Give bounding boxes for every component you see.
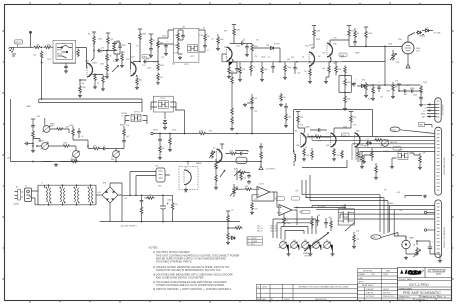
svg-text:5) CIRCUIT GROUND ⏚ DIRTY G: 5) CIRCUIT GROUND ⏚ DIRTY GROUND ⏚ CHASS…: [153, 287, 232, 291]
wire V1 plate up: [91, 44, 94, 61]
plate resistor R19: [233, 28, 236, 37]
wire r8c: [121, 51, 123, 64]
harness wires upper: [302, 175, 388, 234]
B+ terminal 2b: [106, 33, 110, 36]
title block company address text: [428, 269, 447, 276]
wire V1B grid from C2: [112, 44, 131, 70]
resistor R63: [238, 171, 247, 174]
resistor R34: [56, 128, 65, 131]
resistor R46: [280, 93, 283, 102]
B+ rail wire: [294, 110, 373, 153]
wire tp1: [427, 212, 435, 214]
svg-text:APP'D: APP'D: [359, 281, 365, 284]
wire r81: [326, 62, 329, 80]
wire plate: [133, 41, 140, 62]
svg-text:TO 26B: TO 26B: [434, 33, 442, 35]
resistor R20: [251, 44, 254, 53]
svg-text:1N4448: 1N4448: [419, 36, 425, 38]
footswitch lever: [305, 233, 329, 251]
cathode resistor R53: [341, 150, 344, 159]
wire CN2 drops: [130, 172, 170, 196]
labels panel: [38, 112, 128, 161]
trimmer arrow input: [112, 66, 119, 73]
junction dot r88: [365, 46, 367, 48]
wire diodes: [422, 31, 433, 35]
resistor R36: [92, 147, 101, 150]
svg-text:TOUCHING INTERNAL PARTS.: TOUCHING INTERNAL PARTS.: [156, 259, 193, 263]
labels fx: [368, 86, 408, 97]
mid box label: [339, 53, 347, 57]
diode D3: [424, 29, 430, 32]
svg-text:47K .05: 47K .05: [257, 228, 263, 230]
slider grounds: [287, 253, 291, 256]
resistor R72 input: [244, 188, 253, 191]
svg-text:RET: RET: [406, 85, 409, 87]
wire opto nets: [125, 102, 176, 124]
divider resistor R45: [285, 113, 288, 122]
plate resistor R27: [348, 29, 351, 38]
wire signal bus: [222, 61, 342, 63]
ground G16: [364, 94, 368, 97]
winding W4: [88, 187, 94, 204]
fsw components resistor R75: [311, 218, 314, 227]
shield loop: [236, 157, 247, 163]
svg-text:SEE PAGE 2 FOR OUTPUT SCHEMATI: SEE PAGE 2 FOR OUTPUT SCHEMATIC AND THE …: [299, 285, 350, 288]
svg-text:.047: .047: [328, 217, 331, 219]
resistor R68: [234, 227, 243, 230]
wire R42 to V6 region: [207, 133, 294, 135]
capacitor C27: [317, 128, 321, 132]
triode V2A: [227, 47, 233, 61]
plate resistor R10: [139, 32, 142, 41]
capacitor C1: [64, 65, 68, 69]
svg-text:T1: T1: [41, 183, 43, 185]
ground G17: [391, 95, 395, 98]
title block row lines: [398, 268, 452, 302]
ground G4: [115, 58, 119, 61]
ground G10: [245, 53, 249, 56]
ground G9: [216, 47, 220, 50]
op-amp U2: [277, 205, 294, 216]
ground G14: [283, 76, 287, 79]
labels V4: [305, 31, 355, 48]
wire right cluster: [399, 87, 421, 103]
capacitor C25: [239, 152, 243, 156]
capacitor C13: [293, 66, 297, 70]
wire r76b: [361, 152, 363, 166]
resistor R38: [231, 107, 234, 116]
U2 out harness wires: [312, 206, 435, 220]
svg-text:LEVEL: LEVEL: [384, 151, 389, 153]
grid components R43: [211, 150, 214, 159]
winding junction dots bottom: [48, 204, 50, 206]
J3 harness pin dots: [416, 240, 418, 242]
wire R12 net: [158, 38, 166, 62]
ground G32: [184, 188, 188, 191]
ground G2: [78, 94, 82, 97]
svg-text:R16: R16: [172, 64, 175, 66]
wire V5 cathode down: [407, 54, 409, 65]
test point circle TP1: [424, 211, 426, 213]
resistor R65: [146, 197, 155, 200]
svg-text:R30: R30: [362, 80, 365, 82]
wire r87: [353, 232, 355, 245]
wire box to V2 top: [158, 30, 174, 44]
B+ terminal 7: [31, 119, 35, 122]
opto sub-box: [174, 28, 199, 62]
resistor R70: [260, 151, 263, 160]
triode V2B: [309, 52, 315, 66]
svg-text:DRAWING NAME: DRAWING NAME: [399, 287, 413, 290]
wire R78 chain: [247, 94, 252, 134]
svg-text:SEND: SEND: [410, 88, 415, 90]
svg-text:MOCKUP: MOCKUP: [383, 293, 391, 295]
resistor R23: [250, 64, 253, 73]
boxed voltage label: [342, 133, 350, 137]
bias cluster resistor R60: [215, 161, 218, 170]
cathode resistor R21: [228, 66, 231, 75]
wire diode net: [252, 48, 280, 62]
wire C10: [246, 44, 248, 54]
B+ terminal 3: [232, 25, 236, 28]
svg-text:DESCRIPTION: DESCRIPTION: [315, 299, 327, 301]
svg-text:ON/OFF: ON/OFF: [304, 255, 310, 257]
wire r10b: [107, 45, 109, 51]
svg-text:820: 820: [341, 57, 344, 59]
svg-text:+26: +26: [124, 198, 127, 200]
wire P3: [71, 146, 76, 162]
node A: [41, 46, 43, 48]
resistor R7 cathode: [94, 73, 97, 82]
ground G19: [31, 149, 35, 152]
diode D6: [360, 84, 366, 87]
resistor R3b: [77, 49, 80, 58]
svg-text:.15: .15: [253, 244, 255, 246]
feedback loop box: [339, 76, 351, 93]
svg-text:OTHER VOLTAGES ARE ALL DC IN C: OTHER VOLTAGES ARE ALL DC IN CONDITIONS …: [156, 283, 225, 287]
wire C15/R31: [379, 82, 393, 95]
B+ terminal 4: [312, 26, 316, 29]
eq feed wire: [235, 150, 248, 152]
svg-text:1 OF 2: 1 OF 2: [420, 300, 427, 302]
capacitor C3: [118, 45, 122, 49]
resistor R25: [284, 64, 287, 73]
svg-text:DRIVE: DRIVE: [38, 141, 44, 143]
ground G31: [54, 163, 58, 166]
ground G5b: [149, 54, 153, 57]
wire jack to R1: [19, 46, 33, 48]
divider cap C26: [284, 105, 288, 109]
label V5: [398, 39, 421, 53]
resistor R3 grid leak: [79, 85, 82, 94]
wire R38/39: [231, 73, 233, 127]
wire R41: [169, 134, 171, 149]
svg-text:D3: D3: [426, 28, 428, 30]
nested routing loops: [273, 219, 316, 240]
labels extra: [100, 39, 156, 66]
wire oval to J3: [400, 130, 435, 134]
labels tone: [242, 67, 298, 71]
wire r67: [228, 223, 234, 232]
wire chain: [199, 30, 205, 52]
resistor R18: [217, 36, 220, 45]
svg-text:.0022: .0022: [413, 95, 417, 97]
ground G15: [406, 65, 410, 69]
AC plug: [15, 190, 24, 201]
boxed label fsw: [301, 210, 310, 213]
resistor R30: [365, 83, 368, 92]
svg-text:PRODUCTION: PRODUCTION: [383, 296, 395, 298]
wire U1 fb: [252, 192, 274, 201]
winding junction dots top: [48, 184, 50, 186]
svg-text:800: 800: [304, 240, 307, 242]
ground G35: [250, 211, 254, 214]
bottom revision strip: [257, 284, 358, 301]
wire V3A plate net: [330, 37, 355, 46]
resistor R35: [62, 145, 71, 148]
capacitor C17: [410, 89, 414, 93]
supply arrow: [259, 166, 263, 170]
wire R30: [365, 82, 367, 94]
svg-text:R4: R4: [88, 34, 90, 36]
resistor R64: [140, 206, 143, 215]
svg-text:.68: .68: [357, 33, 359, 35]
wire oval2: [381, 233, 398, 238]
wire r82: [335, 62, 337, 76]
triode V1B: [131, 62, 137, 76]
ground G40: [243, 103, 247, 106]
cathode resistor R50: [303, 148, 306, 157]
title block text: [399, 278, 444, 302]
resistor R5: [106, 53, 109, 62]
wire R2 to relay box: [31, 46, 54, 48]
resistor R38b upper: [231, 76, 234, 85]
EQ slider pot SL3: [300, 242, 308, 249]
junction dots V2: [157, 61, 159, 63]
resistor R55: [374, 139, 383, 142]
cathode resistor R52: [333, 148, 336, 157]
resistor R58: [375, 165, 378, 174]
ground G33: [214, 186, 218, 189]
wire cathode to R7: [93, 73, 96, 86]
wire L1: [293, 150, 295, 166]
svg-text:.1: .1: [242, 151, 243, 153]
resistor R61: [215, 174, 218, 183]
ground G22: [168, 148, 172, 151]
svg-text:2.2M: 2.2M: [199, 35, 203, 37]
svg-text:.047: .047: [101, 48, 104, 50]
node plate: [93, 50, 95, 52]
wire chain eq: [260, 143, 262, 166]
junction dot: [251, 133, 253, 135]
svg-text:OPTO2: OPTO2: [134, 112, 140, 114]
svg-text:.1: .1: [297, 69, 298, 71]
svg-text:PRE AMP SCHEMATIC: PRE AMP SCHEMATIC: [403, 291, 441, 295]
wire divider: [285, 103, 287, 124]
wire V6 out: [226, 153, 249, 155]
resistor R66: [171, 202, 174, 211]
treble cap network C20: [72, 128, 75, 137]
B+ terminal 11: [364, 27, 368, 30]
grid stopper wire to V2A: [222, 54, 227, 62]
ground G8: [178, 56, 182, 59]
svg-text:-15: -15: [423, 110, 425, 112]
svg-text:1M5: 1M5: [356, 131, 359, 133]
LED D7: [163, 112, 167, 126]
EQ slider pot SL4: [311, 242, 319, 249]
input jack J1: [9, 45, 20, 57]
triode V7: [301, 133, 307, 147]
capacitor C37: [324, 221, 328, 225]
ground G4b: [120, 64, 124, 67]
svg-text:CN2: CN2: [155, 166, 158, 168]
wire chain: [33, 122, 40, 149]
resistor R1: [33, 46, 42, 49]
svg-text:CBL2: CBL2: [372, 237, 376, 239]
svg-text:125: 125: [282, 240, 285, 242]
labels mid: [162, 131, 215, 151]
svg-text:.022: .022: [297, 73, 300, 75]
J2 pin wires: [427, 104, 437, 117]
boxed label A: [276, 197, 285, 201]
pot P6: [380, 140, 388, 147]
svg-text:SEND: SEND: [364, 146, 369, 148]
bias cluster pot: [234, 170, 241, 181]
diode D1: [269, 46, 275, 49]
capacitor C36: [352, 82, 356, 86]
capacitor C6: [164, 44, 168, 48]
jack label box: [14, 40, 22, 44]
svg-text:.047: .047: [146, 59, 149, 61]
ground G25: [302, 158, 306, 161]
cable oval marker: [390, 127, 400, 132]
svg-text:.02: .02: [81, 136, 83, 138]
svg-text:.02: .02: [253, 67, 255, 69]
capacitor C22: [102, 147, 106, 151]
capacitor C10: [245, 45, 249, 49]
component value table text: [257, 226, 277, 233]
svg-text:OPTO: OPTO: [398, 150, 403, 152]
node shield terminal: [29, 31, 32, 47]
filter rail mid: [123, 194, 173, 196]
triode V3A: [327, 43, 333, 57]
resistor R33: [32, 130, 35, 139]
resistor R73 below U1: [251, 202, 254, 211]
junction dots stack2: [335, 61, 337, 63]
junction dots mid: [159, 133, 161, 135]
ground G3b: [105, 75, 109, 78]
svg-text:2.2M: 2.2M: [113, 61, 117, 63]
ground G43: [343, 107, 347, 110]
resistor R28: [354, 30, 357, 39]
connector J3 tall: [435, 127, 442, 195]
trimmer R62: [233, 186, 236, 195]
svg-text:.047: .047: [126, 136, 129, 138]
ground G44: [371, 97, 375, 100]
svg-text:820: 820: [307, 155, 310, 157]
svg-text:B5: B5: [295, 131, 297, 133]
svg-text:A1M: A1M: [50, 125, 54, 128]
relay text: [57, 50, 63, 56]
ground G1: [64, 70, 68, 73]
wire top: [405, 196, 422, 199]
svg-text:PROJECT NAME: PROJECT NAME: [399, 278, 413, 281]
svg-text:F1: F1: [25, 186, 27, 188]
wire C2 to right: [101, 50, 107, 52]
wire vertical from opto: [142, 103, 185, 134]
J2 left labels: [421, 104, 427, 118]
svg-text:D1: D1: [268, 57, 270, 59]
resistor R87: [353, 234, 356, 243]
svg-text:10MH: 10MH: [253, 241, 257, 243]
resistor R71: [240, 172, 243, 181]
resistor R12: [157, 40, 160, 49]
plate resistor R4 with B+: [92, 32, 96, 35]
relay K1 inner box: [56, 44, 73, 60]
B+ terminal 8: [220, 144, 224, 147]
wire v9 cath: [357, 148, 359, 162]
coupling capacitor C5: [143, 60, 147, 64]
pentode V5 circle: [402, 42, 414, 54]
resistor R8c: [121, 53, 124, 62]
pot P7: [220, 170, 225, 177]
fuse/switch box: [25, 188, 32, 202]
resistor R31: [392, 84, 395, 93]
ground G30: [374, 176, 378, 179]
svg-text:400: 400: [293, 240, 296, 242]
harness drop wires: [389, 206, 406, 241]
optocoupler U4: [158, 101, 168, 109]
resistor R56: [371, 150, 374, 159]
ground G18: [419, 103, 423, 106]
wire r86: [372, 85, 374, 97]
wire R20 down: [251, 52, 253, 62]
B+ terminal 10: [226, 211, 230, 214]
svg-text:1000U: 1000U: [144, 198, 150, 200]
junction: [260, 161, 262, 163]
resistor R10c: [150, 37, 153, 46]
svg-text:NOTES:: NOTES:: [149, 245, 159, 249]
ground G46: [163, 126, 167, 129]
resistor R44: [229, 152, 238, 155]
ground G24: [279, 103, 283, 106]
svg-text:V4: V4: [302, 57, 304, 59]
ground G5: [135, 86, 139, 89]
resistor R39: [231, 116, 234, 125]
EQ legend box: [247, 237, 262, 245]
svg-text:METAL SHELF: METAL SHELF: [362, 284, 373, 287]
wire treble net: [73, 126, 88, 146]
diode D5: [230, 236, 236, 239]
wire r10c: [150, 46, 152, 54]
capacitor C30: [259, 145, 263, 149]
wire bias: [215, 159, 217, 186]
resistor R86: [372, 86, 375, 95]
capacitor C28: [140, 199, 144, 203]
wire r88: [365, 39, 367, 47]
svg-text:C5: C5: [136, 46, 138, 48]
ground G13: [260, 78, 264, 81]
wire C5 to divider: [147, 61, 158, 63]
resistor R37 bass: [123, 128, 126, 137]
wire u2 fb: [284, 210, 297, 227]
optocoupler U6: [398, 152, 408, 160]
svg-text:+15: +15: [231, 210, 234, 212]
svg-text:APPROVED: APPROVED: [363, 269, 373, 272]
fsw jack lever: [345, 222, 355, 231]
svg-text:OPTO: OPTO: [190, 56, 195, 58]
svg-text:BR1: BR1: [103, 183, 106, 185]
